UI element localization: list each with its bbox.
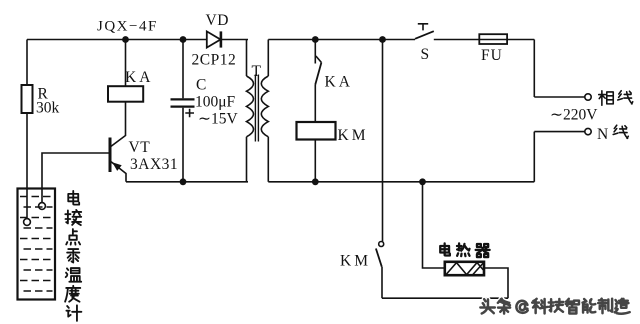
wire base electrode to transistor base: [42, 153, 109, 203]
thermometer body (electric contact mercury thermometer): [18, 189, 56, 300]
capacitor polarity plus sign: [185, 109, 194, 118]
svg-text:3AX31: 3AX31: [130, 156, 178, 173]
svg-text:N: N: [597, 126, 608, 143]
relay contact KA blade: [315, 63, 321, 85]
svg-text:FU: FU: [481, 47, 503, 64]
wire capacitor C bottom lead: [182, 108, 184, 182]
resistor R1 body: [22, 85, 33, 113]
transistor VT base bar: [109, 138, 112, 173]
wire DC bottom rail: [126, 181, 248, 183]
wire KM contact lower lead: [381, 267, 383, 298]
node junction dot heater branch on AC bottom rail: [419, 178, 426, 185]
wire emitter of VT to DC bottom rail: [111, 162, 126, 182]
terminal circle N line: [585, 128, 591, 134]
wire transformer left winding top lead: [246, 40, 248, 77]
wire resistor to thermometer electrode: [26, 113, 28, 219]
svg-text:KM: KM: [338, 127, 369, 144]
contactor coil KM box: [297, 122, 336, 140]
svg-text:∼220V: ∼220V: [550, 107, 598, 124]
wire transformer right winding top lead: [267, 40, 269, 77]
wire transformer right winding bottom lead: [267, 137, 269, 182]
svg-text:2CP12: 2CP12: [192, 52, 237, 69]
wire N corner down to AC bottom rail: [533, 132, 535, 182]
relay contact KA hook: [316, 56, 322, 63]
transformer T core: [255, 75, 258, 142]
svg-text:VD: VD: [206, 12, 229, 29]
diode VD triangle: [207, 31, 221, 47]
svg-text:KA: KA: [125, 69, 153, 86]
contactor contact KM blade: [376, 249, 382, 267]
wire KA coil to top rail: [125, 40, 127, 87]
svg-text:S: S: [421, 46, 430, 63]
label N-line (xian): [613, 125, 628, 138]
wire switch S to fuse FU and corner: [434, 39, 535, 41]
contactor contact KM pivot circle: [379, 242, 384, 247]
wire KM coil to AC bottom rail: [314, 140, 316, 182]
svg-text:KA: KA: [325, 74, 353, 91]
terminal circle phase line: [585, 94, 591, 100]
node junction dot at capacitor on DC bottom rail: [180, 178, 187, 185]
node junction dot KM-contact branch on AC top rail: [379, 36, 386, 43]
wire KA contact to contactor coil KM: [314, 85, 316, 123]
svg-text:30k: 30k: [36, 100, 60, 117]
capacitor C plates: [171, 99, 195, 106]
switch S blade: [415, 31, 434, 39]
wire heater right lead: [484, 268, 508, 298]
wire top rail left (27,39.5)-(206.5,39.5): [27, 39, 207, 41]
wire AC top rail: [268, 39, 415, 41]
label phase line (xiang xian): [599, 91, 614, 106]
wire collector of VT to relay coil KA: [111, 102, 126, 147]
thermometer electrode contact right (short): [39, 203, 46, 210]
wire KM contact branch from top rail: [382, 40, 384, 242]
fuse FU box: [479, 34, 507, 44]
transistor VT emitter arrow: [112, 162, 122, 171]
node junction dot at capacitor on top rail: [180, 36, 187, 43]
diode VD cathode bar: [220, 31, 223, 47]
heater element box: [445, 262, 484, 275]
wire heater left lead to rail junction: [423, 182, 445, 268]
svg-text:JQX−4F: JQX−4F: [97, 19, 158, 35]
wire N line terminal to corner: [534, 131, 585, 133]
wire right corner down to phase terminal: [533, 40, 535, 98]
node junction dot at KA branch on top rail: [122, 36, 129, 43]
label electric heater (dian re qi): [440, 243, 450, 255]
wire capacitor C top lead: [182, 40, 184, 99]
wire transformer left winding bottom lead: [246, 137, 248, 182]
svg-text:100μF: 100μF: [195, 94, 236, 111]
watermark toutiao logo + text: [480, 299, 494, 313]
node junction dot KM coil on AC bottom rail: [312, 178, 319, 185]
wire AC bottom rail: [268, 181, 534, 183]
wire left vertical from rail to resistor R: [26, 40, 28, 86]
svg-text:C: C: [196, 77, 206, 94]
wire diode to transformer primary top: [221, 39, 248, 41]
thermometer electrode contact left (long): [24, 219, 31, 226]
transformer T left winding: [247, 76, 254, 137]
label thermometer vertical text: dian jie dian gong wen du ji: [68, 191, 79, 205]
wire heater bottom return: [382, 297, 508, 299]
relay coil KA box: [108, 86, 143, 102]
thermometer mercury level dashes: [20, 197, 53, 292]
svg-text:VT: VT: [129, 139, 151, 156]
heater element zigzag: [446, 263, 484, 275]
node junction dot KA/KM branch on AC top rail: [312, 36, 319, 43]
wire KA contact branch upper lead: [314, 40, 316, 64]
transformer T right winding: [261, 76, 268, 137]
svg-text:KM: KM: [340, 253, 371, 270]
wire to phase line terminal: [534, 96, 584, 98]
svg-text:T: T: [252, 63, 262, 80]
switch S actuator tick: [418, 24, 428, 31]
svg-text:∼15V: ∼15V: [198, 111, 238, 128]
